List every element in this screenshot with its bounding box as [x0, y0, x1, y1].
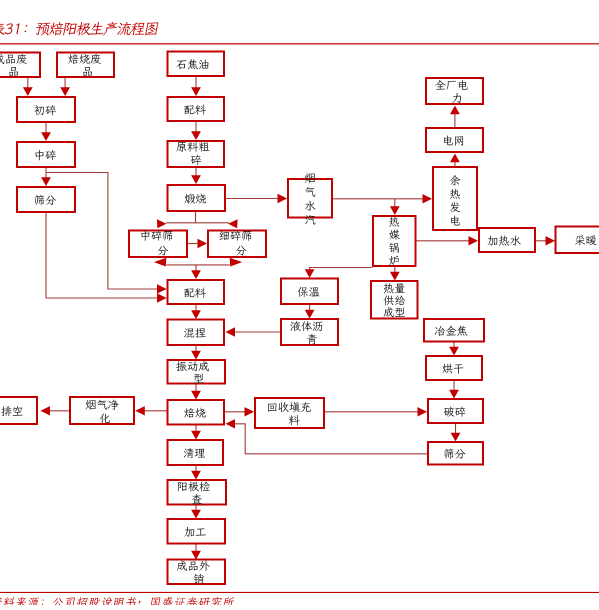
- box 成品外销: [168, 560, 226, 585]
- box 配料 lower: [168, 280, 225, 304]
- wire 煅烧→筛分 splitter: [166, 212, 196, 223]
- wire 清理→阳极检查: [195, 466, 197, 472]
- wire 加热水→采暖: [536, 240, 547, 242]
- arrowhead into 阳极检查: [191, 471, 201, 480]
- arrowhead into 破碎: [418, 407, 428, 416]
- box 烟气水汽: [288, 173, 332, 224]
- wire 筛分→配料: [46, 213, 158, 298]
- box 成品废品: [0, 53, 40, 78]
- arrowhead into 混捏 top: [191, 310, 201, 319]
- box 煅烧: [168, 185, 226, 211]
- arrowhead collector left cap: [154, 258, 166, 267]
- arrowhead into 烟气净化: [135, 406, 145, 415]
- wire 热媒锅炉→保温: [310, 268, 373, 271]
- arrowhead into 清理: [191, 431, 201, 440]
- wire 煅烧→烟气水汽: [226, 198, 279, 200]
- wire 振动成型→焙烧: [195, 385, 197, 393]
- wire 中碎 branch→配料: [46, 173, 158, 290]
- box 液体沥青: [281, 319, 338, 345]
- wire 焙烧→清理: [195, 426, 197, 433]
- wire 配料→混捏: [195, 305, 197, 311]
- box 回收填充料: [255, 398, 324, 428]
- box 配料 upper: [168, 97, 225, 121]
- arrowhead into 电网: [450, 154, 460, 163]
- footer 资料来源：公司招股说明书，国盛证券研究所: [0, 597, 235, 608]
- arrowhead into 排空: [41, 406, 51, 415]
- box 余热发电: [433, 167, 477, 230]
- wire 液体沥青→混捏: [234, 331, 280, 333]
- wire 焙烧→回收填充料: [225, 411, 246, 413]
- arrowhead into 回收填充料: [245, 407, 255, 416]
- wire 中碎→筛分: [45, 168, 47, 179]
- wire 电网→全厂电力: [454, 114, 456, 128]
- wire collector 中碎筛分-细碎筛分: [166, 264, 229, 266]
- box 热媒锅炉: [373, 216, 416, 266]
- arrowhead into 成品外销: [191, 551, 201, 560]
- arrowhead collector right cap: [230, 258, 242, 267]
- arrowhead splitter left cap: [157, 219, 167, 228]
- bottom rule: [0, 592, 599, 593]
- wire 筛分→焙烧 return: [235, 424, 428, 454]
- box 破碎: [428, 399, 483, 423]
- box 阳极检查: [168, 480, 227, 505]
- box 冶金焦: [424, 319, 484, 342]
- box 加工: [168, 519, 226, 544]
- box 初碎: [17, 97, 75, 122]
- arrowhead into 筛分 right: [451, 433, 461, 442]
- box 全厂电力: [426, 78, 483, 104]
- wire 石焦油→配料: [195, 77, 197, 89]
- arrowhead into 采暖: [546, 236, 556, 245]
- title 表31：预焙阳极生产流程图: [0, 22, 159, 36]
- box 清理: [168, 440, 224, 465]
- wire 烟气净化→排空: [50, 410, 70, 412]
- wire 破碎→筛分: [455, 424, 457, 434]
- box 石焦油: [168, 52, 225, 77]
- wire branch→热媒锅炉: [394, 199, 396, 208]
- arrowhead into 配料 b: [157, 293, 167, 302]
- wire 冶金焦→烘干: [453, 343, 455, 349]
- arrowhead into 全厂电力: [450, 106, 460, 115]
- box 热量供给成型: [371, 281, 418, 319]
- arrowhead into 加工: [191, 510, 201, 519]
- wire 配料→原料粗碎: [195, 122, 197, 133]
- arrowhead into 加热水: [469, 236, 479, 245]
- arrowhead into 余热发电: [423, 194, 433, 203]
- arrowhead into 初碎 a: [23, 87, 33, 96]
- box 加热水: [479, 228, 535, 252]
- wire 原料粗碎→煅烧: [195, 168, 197, 177]
- arrowhead into 配料 upper: [191, 87, 201, 96]
- box 筛分 right: [428, 442, 483, 465]
- arrowhead into 初碎 b: [60, 87, 70, 96]
- wire 烘干→破碎: [453, 381, 455, 391]
- wire splitter right: [196, 222, 230, 224]
- box 混捏: [168, 320, 225, 346]
- wire 焙烧废品→初碎: [64, 78, 66, 89]
- wire 初碎→中碎: [45, 123, 47, 134]
- arrowhead into 烘干: [449, 347, 459, 356]
- arrowhead into 热量供给成型: [390, 272, 400, 281]
- box 保温: [281, 279, 338, 305]
- arrowhead into 振动成型: [191, 351, 201, 360]
- arrowhead into 保温: [305, 269, 315, 278]
- arrowhead into 烟气水汽: [278, 194, 288, 203]
- box 焙烧: [168, 400, 225, 425]
- arrowhead into 液体沥青: [305, 310, 315, 319]
- box 原料粗碎: [168, 141, 225, 167]
- wire 回收填充料→破碎: [325, 411, 419, 413]
- top rule: [0, 43, 599, 44]
- box 焙烧废品: [57, 53, 114, 78]
- box 中碎筛分: [129, 230, 187, 257]
- wire 中碎筛分→细碎筛分: [188, 243, 199, 245]
- wire collector→配料: [195, 265, 197, 271]
- arrowhead into 配料 top: [191, 270, 201, 279]
- box 振动成型: [168, 360, 226, 384]
- arrowhead into 混捏: [226, 327, 236, 336]
- wire 加工→成品外销: [195, 545, 197, 552]
- arrowhead into 焙烧 right: [226, 419, 236, 428]
- wire 保温→液体沥青: [309, 305, 311, 311]
- wire 焙烧→烟气净化: [144, 410, 167, 412]
- arrowhead into 焙烧: [191, 391, 201, 400]
- arrowhead splitter right cap: [228, 219, 238, 228]
- box 采暖: [556, 227, 599, 254]
- wire 阳极检查→加工: [195, 506, 197, 511]
- wire 混捏→振动成型: [195, 346, 197, 352]
- wire 热媒锅炉→热量供给成型: [394, 267, 396, 273]
- arrowhead into 煅烧: [191, 175, 201, 184]
- box 中碎: [17, 142, 75, 167]
- wire 余热发电→电网: [454, 162, 456, 167]
- box 排空: [0, 397, 37, 424]
- box 烘干: [426, 356, 482, 380]
- arrowhead into 中碎: [41, 132, 51, 141]
- wire 成品废品→初碎: [27, 78, 29, 89]
- box 细碎筛分: [208, 230, 266, 257]
- arrowhead into 原料粗碎: [191, 131, 201, 140]
- wire 热媒锅炉→加热水: [417, 240, 471, 242]
- wire 烟气水汽→余热发电: [333, 198, 424, 200]
- arrowhead into 筛分: [41, 177, 51, 186]
- arrowhead into 破碎 top: [449, 390, 459, 399]
- arrowhead into 配料 a: [157, 284, 167, 293]
- box 电网: [426, 128, 483, 152]
- arrowhead into 细碎筛分: [198, 239, 208, 248]
- box 烟气净化: [70, 397, 134, 424]
- arrowhead into 热媒锅炉: [390, 206, 400, 215]
- box 筛分 left: [17, 187, 75, 212]
